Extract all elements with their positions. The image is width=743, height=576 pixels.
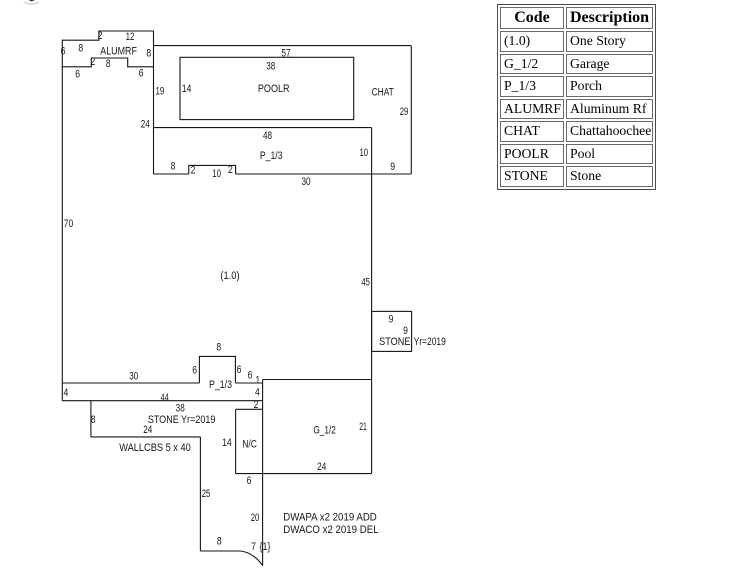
wire vertical x153 19/24: [153, 67, 155, 174]
svg-text:24: 24: [317, 461, 327, 474]
svg-text:P_1/3: P_1/3: [209, 379, 232, 391]
svg-text:POOLR: POOLR: [258, 83, 290, 95]
wire P_1/3 bottom left 8: [154, 173, 189, 175]
svg-text:57: 57: [281, 47, 290, 59]
svg-text:{1}: {1}: [260, 541, 271, 553]
svg-text:CHAT: CHAT: [372, 86, 394, 98]
svg-text:2: 2: [90, 56, 95, 68]
svg-text:2: 2: [98, 30, 103, 42]
svg-text:8: 8: [217, 536, 222, 548]
svg-text:(1.0): (1.0): [220, 270, 239, 282]
wire 25 line: [199, 437, 201, 551]
curve 7: [240, 551, 262, 566]
svg-text:21: 21: [359, 420, 367, 432]
wire G_1/2 bottom 24: [236, 473, 372, 475]
svg-text:9: 9: [390, 161, 395, 173]
wire 24 line: [91, 436, 200, 438]
svg-text:8: 8: [91, 414, 96, 426]
wire N/C top: [236, 408, 263, 410]
svg-text:ALUMRF: ALUMRF: [100, 46, 137, 58]
svg-text:38: 38: [176, 402, 185, 415]
svg-text:8: 8: [106, 58, 111, 70]
svg-text:8: 8: [78, 43, 83, 55]
svg-text:20: 20: [251, 512, 260, 525]
svg-text:6: 6: [248, 370, 253, 382]
svg-text:29: 29: [400, 106, 409, 119]
svg-text:N/C: N/C: [242, 439, 257, 451]
svg-text:WALLCBS 5 x 40: WALLCBS 5 x 40: [119, 442, 191, 454]
svg-text:14: 14: [222, 437, 232, 449]
svg-text:6: 6: [237, 364, 242, 376]
stray mark top left: [24, 0, 39, 4]
svg-text:6: 6: [75, 68, 80, 80]
svg-text:STONE: STONE: [379, 336, 410, 348]
svg-text:G_1/2: G_1/2: [313, 424, 335, 436]
wire right edge 10/45/21: [371, 128, 373, 474]
wire bottom right of small box: [235, 382, 262, 384]
svg-text:2: 2: [254, 399, 259, 411]
svg-text:24: 24: [143, 424, 153, 437]
wire P_1/3 top 48: [154, 127, 372, 129]
svg-text:10: 10: [360, 147, 369, 160]
svg-text:14: 14: [182, 83, 192, 95]
wire right edge CHAT 29: [410, 46, 412, 174]
POOLR rectangle: [180, 57, 354, 119]
svg-text:6: 6: [192, 364, 197, 376]
wire bottom edge 30: [236, 173, 412, 175]
svg-text:4: 4: [64, 387, 69, 399]
svg-text:24: 24: [141, 119, 151, 132]
wire 44 line: [62, 400, 262, 402]
svg-text:8: 8: [146, 47, 151, 59]
svg-text:6: 6: [61, 46, 66, 58]
svg-text:DWACO x2 2019 DEL: DWACO x2 2019 DEL: [283, 525, 379, 537]
svg-text:10: 10: [212, 168, 221, 181]
svg-text:30: 30: [129, 370, 138, 383]
svg-text:6: 6: [247, 475, 252, 487]
ALUMRF outline: [62, 31, 153, 67]
wire vertical x262 4/2/20: [262, 380, 264, 566]
svg-text:70: 70: [64, 218, 74, 230]
svg-text:4: 4: [255, 387, 260, 399]
svg-text:48: 48: [263, 130, 272, 143]
svg-text:45: 45: [361, 276, 370, 289]
svg-text:DWAPA x2 2019 ADD: DWAPA x2 2019 ADD: [283, 512, 377, 524]
wire bottom notch 2-10-2: [189, 165, 236, 174]
wire step 8: [90, 401, 92, 437]
wire left edge 70: [61, 67, 63, 401]
wire N/C left 14: [235, 409, 237, 473]
wire bottom 8 line: [200, 550, 240, 552]
svg-text:2: 2: [191, 164, 196, 176]
svg-text:P_1/3: P_1/3: [260, 150, 283, 162]
svg-text:8: 8: [171, 161, 176, 173]
svg-text:Yr=2019: Yr=2019: [414, 336, 446, 348]
wire G_1/2 top: [263, 379, 372, 381]
svg-text:44: 44: [161, 392, 169, 404]
svg-text:19: 19: [155, 85, 164, 98]
svg-text:38: 38: [266, 60, 275, 73]
wire top edge 57: [154, 45, 412, 47]
svg-text:25: 25: [202, 488, 211, 501]
wire bottom 30 left: [62, 382, 199, 384]
svg-text:2: 2: [228, 164, 233, 176]
svg-text:STONE Yr=2019: STONE Yr=2019: [148, 414, 216, 426]
svg-text:12: 12: [126, 31, 135, 44]
svg-text:8: 8: [216, 341, 221, 353]
svg-text:1: 1: [255, 374, 260, 386]
small P_1/3 box: [199, 356, 235, 383]
codes table: [497, 4, 656, 190]
STONE box 9x9: [372, 311, 412, 351]
svg-text:9: 9: [389, 314, 394, 326]
svg-text:30: 30: [301, 176, 310, 189]
svg-text:6: 6: [139, 68, 144, 80]
svg-text:7: 7: [251, 541, 256, 553]
